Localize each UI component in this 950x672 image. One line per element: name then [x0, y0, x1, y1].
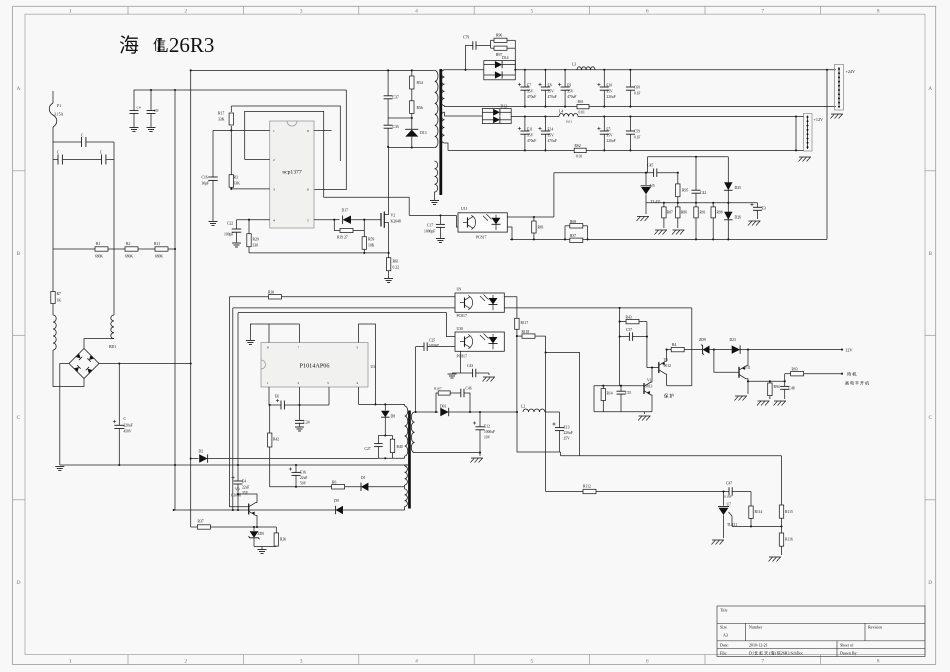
svg-text:R91: R91: [700, 211, 706, 215]
optocoupler U30 PC817: [455, 332, 504, 351]
svg-text:7: 7: [761, 659, 764, 665]
svg-text:Size: Size: [720, 625, 727, 630]
wire source to R61: [388, 223, 390, 258]
diode D9: [336, 506, 343, 514]
svg-text:D12: D12: [501, 104, 508, 108]
wire C25 line: [416, 346, 424, 348]
node pin1 line: [213, 129, 270, 131]
svg-text:D25: D25: [735, 186, 742, 190]
svg-text:R43: R43: [626, 316, 632, 320]
op-amp U7 TL431: [723, 492, 725, 506]
svg-text:R107: R107: [434, 387, 442, 391]
svg-text:8: 8: [307, 129, 309, 133]
resistor R95: [677, 173, 679, 184]
wire winding return: [415, 452, 481, 454]
resistor R69: [564, 226, 566, 241]
svg-text:U3: U3: [371, 365, 376, 369]
common-mode choke left winding: [53, 315, 56, 350]
svg-text:30pF: 30pF: [202, 182, 210, 186]
svg-text:C55: C55: [625, 391, 631, 395]
svg-text:D17: D17: [342, 209, 349, 213]
svg-text:C37: C37: [393, 96, 399, 100]
svg-text:D2: D2: [199, 450, 204, 454]
resistor R43: [619, 308, 621, 386]
svg-text:4: 4: [273, 218, 275, 222]
svg-text:2: 2: [184, 9, 187, 15]
wire +24V aux drop: [826, 70, 828, 240]
svg-text:R3: R3: [234, 176, 238, 180]
svg-text:35V: 35V: [606, 89, 613, 93]
resistor R98: [712, 203, 714, 207]
svg-text:D26: D26: [735, 216, 742, 220]
wire feedback riser to C45 line: [553, 173, 555, 217]
wire pin5 gate line: [314, 219, 335, 221]
svg-text:C: C: [100, 151, 103, 155]
wire +24V rail: [515, 69, 836, 71]
svg-text:V1: V1: [647, 379, 652, 383]
svg-text:A: A: [928, 86, 932, 92]
svg-text:E16: E16: [300, 471, 306, 475]
transistor V1 9013: [620, 385, 644, 387]
capacitor C line-filter top: [53, 141, 82, 143]
svg-text:1K: 1K: [57, 299, 62, 303]
svg-text:Sheet of: Sheet of: [840, 643, 854, 648]
svg-text:R36: R36: [280, 538, 286, 542]
svg-text:2: 2: [184, 659, 187, 665]
capacitor E8 470uF: [544, 70, 546, 87]
wire C35 to R56 link: [388, 117, 412, 119]
svg-text:V2: V2: [391, 214, 396, 218]
wire 5V line with L2: [480, 411, 517, 413]
resistor R14: [593, 386, 595, 412]
wire snubber bottom to winding: [388, 147, 435, 149]
svg-text:33K: 33K: [234, 182, 241, 186]
wire pin3 drop: [328, 387, 330, 405]
svg-text:C24: C24: [304, 421, 310, 425]
wire pin7 stub: [299, 324, 301, 343]
resistor R3 33K: [230, 130, 232, 174]
resistor R2: [108, 248, 125, 250]
svg-text:R2: R2: [126, 242, 131, 246]
connector +12V: [804, 114, 813, 152]
svg-text:RS1: RS1: [578, 100, 584, 104]
svg-text:PC817: PC817: [457, 314, 467, 318]
capacitor E10 220uF: [603, 70, 605, 87]
wire feedback drop to R112: [545, 336, 547, 491]
svg-text:E13: E13: [564, 426, 570, 430]
resistor R37: [191, 526, 198, 528]
transformer T2 aux winding upper: [405, 466, 408, 485]
svg-text:V11: V11: [745, 366, 751, 370]
resistor R86: [677, 203, 679, 207]
svg-text:C1008: C1008: [231, 494, 241, 498]
svg-text:3: 3: [300, 659, 303, 665]
svg-text:C47: C47: [726, 482, 732, 486]
svg-text:R1: R1: [96, 242, 101, 246]
resistor R115: [781, 456, 783, 505]
svg-text:D14: D14: [502, 56, 509, 60]
svg-text:3: 3: [273, 188, 275, 192]
wire drain vertical: [388, 147, 390, 215]
svg-text:U9: U9: [457, 288, 462, 292]
svg-text:35V: 35V: [548, 133, 555, 137]
svg-text:35V: 35V: [548, 89, 555, 93]
capacitor E7 470uF: [524, 70, 526, 87]
wire C25 riser: [415, 347, 417, 412]
wire P1014 top gnd loop: [250, 324, 269, 343]
svg-text:Number: Number: [749, 625, 763, 630]
node aux center tap D1 line: [404, 487, 406, 489]
svg-text:R40: R40: [397, 445, 403, 449]
svg-text:50V: 50V: [300, 482, 307, 486]
svg-text:0.1uF: 0.1uF: [724, 495, 732, 499]
svg-text:D01: D01: [440, 405, 447, 409]
svg-text:C22: C22: [227, 222, 233, 226]
wire secondary top rail: [445, 69, 484, 71]
svg-text:12V: 12V: [845, 348, 853, 353]
wire source return line: [249, 252, 389, 254]
wire choke to bridge AC2: [84, 339, 114, 349]
svg-text:Drawn By:: Drawn By:: [840, 650, 858, 655]
svg-text:A: A: [17, 86, 21, 92]
svg-text:4: 4: [415, 659, 418, 665]
svg-text:C43: C43: [467, 364, 473, 368]
svg-text:220uF: 220uF: [606, 95, 615, 99]
svg-text:E9: E9: [567, 84, 571, 88]
svg-text:1: 1: [69, 659, 72, 665]
wire U11 lower pin to rail: [507, 227, 512, 239]
diode D2: [191, 458, 199, 460]
svg-text:R59: R59: [368, 238, 374, 242]
snubber capacitor C79: [466, 46, 473, 70]
diode D25: [727, 157, 729, 183]
diode D1: [361, 483, 368, 491]
capacitor C22 100pF: [236, 220, 238, 229]
svg-text:F1: F1: [57, 104, 61, 108]
svg-text:R61: R61: [393, 260, 399, 264]
wire pin2 drop: [299, 387, 301, 420]
svg-text:TL431: TL431: [651, 200, 661, 204]
svg-text:PC817: PC817: [457, 355, 467, 359]
svg-text:E11: E11: [527, 128, 533, 132]
svg-text:D1: D1: [361, 476, 366, 480]
capacitor C27 / resistor R40 snubber: [378, 435, 392, 437]
wire E13 bottom loop: [517, 412, 560, 452]
svg-text:L3: L3: [572, 63, 576, 67]
resistor R1: [53, 248, 95, 250]
svg-text:C42: C42: [700, 191, 706, 195]
svg-text:R87: R87: [667, 211, 673, 215]
connector +24V: [835, 65, 844, 111]
diode D01: [440, 408, 448, 416]
resistor R81: [533, 217, 535, 221]
wire 12V conn drop: [795, 117, 797, 151]
transformer T2 primary winding: [405, 406, 408, 456]
title block: [717, 606, 925, 657]
svg-text:C46: C46: [466, 387, 472, 391]
wire long vertical VCC sense: [174, 90, 176, 510]
wire R42 E16 R6 line: [270, 486, 332, 488]
wire aux top to primary rail: [405, 464, 408, 466]
wire V11 emitter: [747, 381, 749, 394]
svg-text:D9: D9: [334, 499, 339, 503]
snubber vertical C37 C35: [387, 70, 389, 95]
wire AC line2: [113, 142, 115, 315]
svg-text:Title: Title: [720, 608, 728, 613]
svg-text:E3: E3: [762, 207, 766, 211]
capacitor C57: [620, 336, 630, 338]
svg-text:+12V: +12V: [814, 117, 824, 122]
svg-text:470uF: 470uF: [567, 95, 576, 99]
resistor R114: [750, 492, 752, 507]
svg-text:R14: R14: [607, 392, 613, 396]
svg-text:C79: C79: [463, 36, 469, 40]
common-mode choke right winding: [111, 315, 114, 339]
svg-text:7: 7: [761, 9, 764, 15]
svg-text:Date:: Date:: [720, 643, 729, 648]
transistor V2 K2648 mosfet: [380, 213, 382, 227]
svg-text:V9: V9: [235, 488, 240, 492]
resistor R59 10K: [363, 231, 365, 237]
svg-text:File:: File:: [720, 650, 727, 655]
resistor R36: [275, 527, 277, 533]
svg-text:ncp1377: ncp1377: [282, 170, 301, 176]
op-amp U3 P1014AP06 controller IC: [261, 343, 368, 388]
svg-text:E4: E4: [242, 480, 246, 484]
svg-text:220uF: 220uF: [124, 424, 133, 428]
capacitor C17 1000pF: [409, 214, 456, 216]
wire primary ground rail: [60, 464, 408, 466]
wire top VCC rail y90: [134, 89, 347, 91]
svg-text:C17: C17: [427, 224, 433, 228]
wire loop vertical b: [232, 308, 234, 510]
resistor R93: [784, 374, 786, 382]
svg-text:E6: E6: [275, 395, 279, 399]
svg-text:R94: R94: [774, 385, 780, 389]
svg-text:470uF: 470uF: [527, 139, 536, 143]
svg-text:8: 8: [877, 9, 880, 15]
svg-text:1: 1: [69, 9, 72, 15]
svg-text:A3: A3: [723, 633, 728, 638]
transformer T1 aux winding: [435, 161, 438, 192]
svg-text:D: D: [17, 580, 21, 586]
diode D13 zener: [405, 130, 418, 137]
svg-text:E12: E12: [484, 425, 490, 429]
svg-text:R20: R20: [253, 238, 259, 242]
ground ZD5 R36: [254, 546, 276, 548]
svg-text:D23: D23: [730, 338, 737, 342]
svg-text:E7: E7: [527, 84, 531, 88]
svg-text:470uF: 470uF: [527, 95, 536, 99]
svg-text:海: 海: [119, 34, 139, 57]
diode D8: [384, 404, 386, 410]
svg-text:0.01: 0.01: [566, 120, 572, 124]
svg-text:6: 6: [646, 9, 649, 15]
svg-text:R37: R37: [570, 234, 576, 238]
svg-text:450V: 450V: [124, 430, 132, 434]
bridge rectifier BD1: [69, 349, 99, 379]
svg-text:C9: C9: [154, 109, 159, 113]
svg-text:C57: C57: [626, 328, 632, 332]
svg-text:R115: R115: [785, 510, 793, 514]
svg-text:1: 1: [273, 129, 275, 133]
svg-text:C27: C27: [365, 447, 371, 451]
resistor R37b: [570, 238, 583, 242]
wire long vertical B+ riser: [190, 70, 192, 527]
svg-text:0.22: 0.22: [393, 266, 400, 270]
wire R117 node drop: [516, 336, 518, 412]
transformer T1 secondary winding 24V: [441, 70, 444, 106]
resistor R19 27: [334, 220, 340, 231]
svg-text:R30: R30: [268, 291, 274, 295]
transformer T1 primary winding: [435, 70, 438, 147]
svg-text:C60: C60: [634, 86, 640, 90]
svg-text:E5: E5: [606, 128, 610, 132]
wire B+ top rail to transformer: [191, 69, 435, 71]
resistor R61 0.22: [386, 258, 390, 271]
ground under C16: [209, 221, 218, 223]
svg-text:D8: D8: [391, 415, 396, 419]
wire 24V return rail: [445, 105, 578, 108]
diode D14 dual rectifier: [484, 61, 516, 80]
wire latch bottom: [667, 385, 692, 387]
resistor R117: [515, 318, 519, 329]
svg-text:35V: 35V: [242, 491, 249, 495]
wire pin4 drive line: [358, 387, 360, 404]
wire aux winding to ground: [434, 192, 436, 200]
capacitor C9: [150, 90, 152, 111]
svg-text:25V: 25V: [564, 437, 571, 441]
ground under 24V connector: [831, 113, 843, 115]
svg-text:V5: V5: [664, 358, 669, 362]
capacitor C42: [695, 157, 697, 190]
svg-text:680K: 680K: [95, 255, 103, 259]
svg-text:680K: 680K: [155, 255, 163, 259]
svg-text:100pF: 100pF: [224, 233, 233, 237]
svg-text:C48: C48: [789, 387, 795, 391]
svg-text:9012: 9012: [664, 364, 672, 368]
wire bridge minus to ground rail: [60, 364, 69, 466]
resistor R6: [332, 485, 345, 489]
svg-text:35V: 35V: [527, 89, 534, 93]
svg-text:22uF: 22uF: [300, 476, 307, 480]
op-amp U5 TL431 shunt reg: [645, 173, 647, 185]
transformer T2 core: [408, 411, 411, 509]
capacitor C45 line: [554, 172, 654, 174]
capacitor E9 470uF: [564, 70, 566, 87]
ground under 12V connector: [799, 156, 811, 158]
transformer T2 aux winding lower: [405, 489, 408, 507]
transformer T1 secondary winding 12V: [441, 112, 444, 143]
svg-text:0.1F: 0.1F: [634, 91, 641, 95]
wire U7 ref line: [729, 512, 733, 526]
capacitor C16 30pF: [212, 130, 214, 177]
svg-text:E8: E8: [548, 84, 552, 88]
resistor R17 33K: [230, 106, 232, 112]
svg-text:U11: U11: [461, 207, 467, 211]
capacitor E4 22uF 35V: [237, 465, 239, 481]
svg-text:5: 5: [531, 659, 534, 665]
svg-text:4: 4: [415, 9, 418, 15]
wire loop vertical c to E4: [237, 313, 239, 465]
svg-text:1000pF: 1000pF: [429, 343, 439, 347]
resistor R54: [411, 70, 413, 76]
capacitor E12 1000uF 10V: [479, 411, 481, 413]
transistor V5 9012: [647, 367, 659, 369]
resistor R87: [663, 203, 665, 207]
svg-text:R17: R17: [218, 112, 224, 116]
svg-text:C16: C16: [202, 176, 208, 180]
svg-text:R37: R37: [198, 520, 204, 524]
svg-text:R11: R11: [154, 242, 160, 246]
svg-text:1000uF: 1000uF: [484, 430, 495, 434]
fuse F1: [52, 91, 54, 103]
wire lower opto line: [233, 307, 455, 309]
capacitor E3: [757, 203, 759, 208]
svg-text:RS2: RS2: [575, 144, 581, 148]
svg-text:C59: C59: [634, 130, 640, 134]
svg-text:E10: E10: [606, 84, 612, 88]
diode D17: [334, 219, 339, 221]
wire pin3 line: [231, 188, 269, 190]
svg-text:E14: E14: [548, 128, 554, 132]
svg-text:D13: D13: [420, 131, 427, 135]
wire feedback common rail: [510, 238, 827, 240]
wire 12V return rail: [445, 143, 449, 150]
svg-text:R96: R96: [496, 34, 502, 38]
capacitor C 220uF 450V bulk: [118, 364, 120, 426]
wire latch link: [646, 322, 648, 368]
capacitor C55: [620, 386, 622, 392]
svg-text:5: 5: [307, 218, 309, 222]
resistor R118: [517, 335, 522, 337]
wire +12V post rail: [578, 116, 804, 118]
capacitor C43: [460, 352, 462, 374]
resistor R30: [229, 296, 268, 298]
capacitor E14 470uF: [544, 117, 546, 132]
svg-text:R118: R118: [522, 330, 530, 334]
svg-text:B: B: [928, 251, 932, 257]
svg-text:35V: 35V: [527, 133, 534, 137]
svg-text:R19 27: R19 27: [337, 236, 348, 240]
svg-text:C: C: [17, 415, 21, 421]
capacitor C59 0.1F: [629, 117, 631, 132]
wire sense line right: [560, 451, 561, 453]
wire pin8 stub: [314, 129, 332, 131]
svg-text:330: 330: [253, 244, 259, 248]
resistor R116: [781, 526, 783, 533]
resistor R42: [269, 405, 271, 433]
svg-text:R116: R116: [785, 538, 793, 542]
svg-text:33K: 33K: [218, 118, 225, 122]
svg-text:0.01: 0.01: [579, 111, 585, 115]
resistor RS2 0.01 shunt: [574, 148, 586, 152]
capacitor E6: [268, 387, 270, 405]
resistor R11: [138, 248, 155, 250]
wire top link line: [647, 157, 649, 173]
capacitor E13 220uF 25V: [559, 412, 561, 428]
svg-text:6: 6: [646, 659, 649, 665]
svg-text:ZD5: ZD5: [258, 532, 265, 536]
optocoupler U11 PC817: [456, 215, 458, 227]
svg-text:D:\长 虹 天 (海) 信26R3.SchDoc: D:\长 虹 天 (海) 信26R3.SchDoc: [749, 649, 803, 655]
transformer T1 core: [439, 69, 442, 195]
svg-text:C: C: [928, 415, 932, 421]
resistor R107 / capacitor C46 snubber: [436, 393, 438, 412]
svg-text:R86: R86: [681, 211, 687, 215]
wire +12V pre rail: [511, 116, 559, 118]
wire loop vertical a: [228, 297, 230, 507]
